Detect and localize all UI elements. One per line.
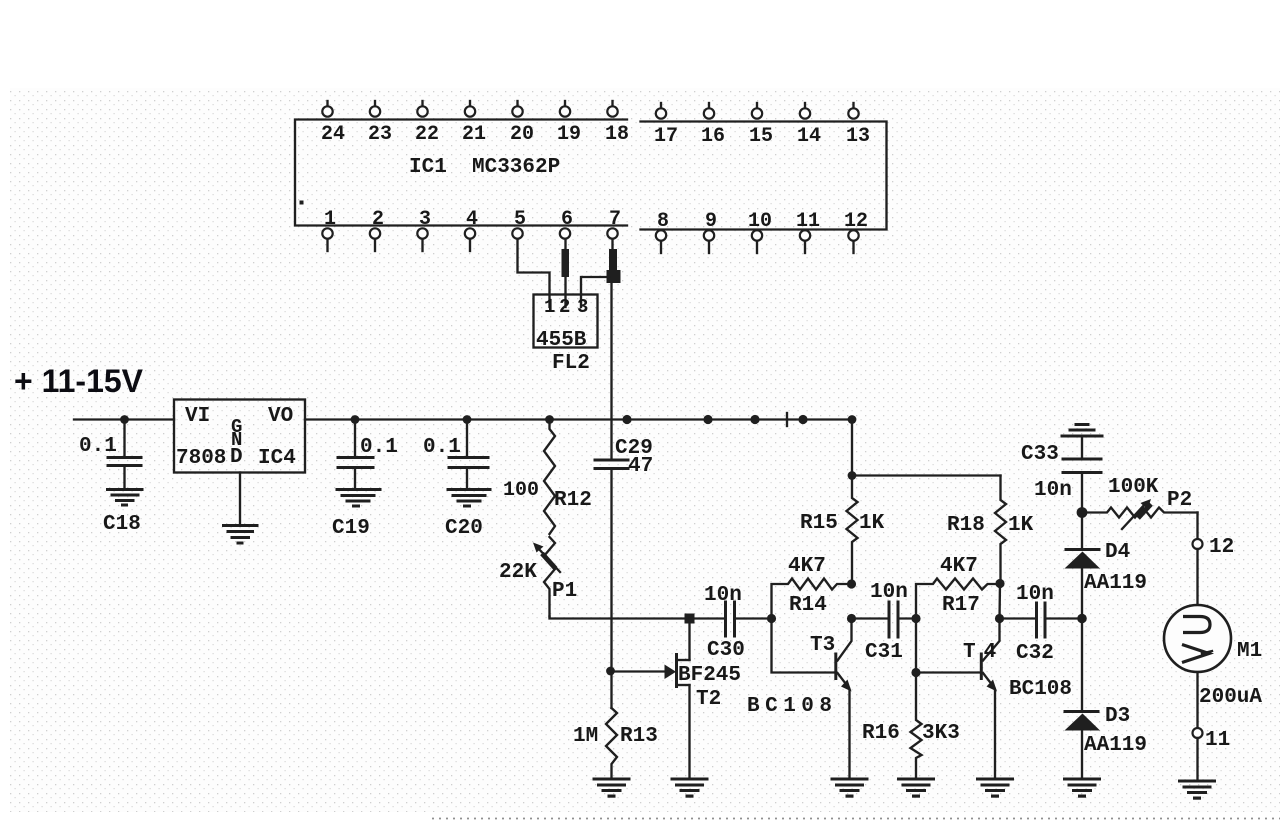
ground R16 xyxy=(899,779,934,798)
wire IC4 ground stem xyxy=(239,473,241,526)
svg-text:C33: C33 xyxy=(1021,443,1059,466)
pin 8 xyxy=(656,210,669,253)
svg-text:P1: P1 xyxy=(552,580,577,603)
svg-text:T4: T4 xyxy=(963,641,1004,664)
svg-text:R14: R14 xyxy=(789,594,827,617)
svg-text:T3: T3 xyxy=(810,634,835,657)
svg-text:C32: C32 xyxy=(1016,642,1054,665)
meter M1 VU xyxy=(1164,605,1262,672)
pin 21 xyxy=(462,101,486,146)
node junction R15 top / rail to R18 xyxy=(848,471,857,480)
node rail junction C19 xyxy=(351,415,360,424)
svg-text:BC108: BC108 xyxy=(1009,678,1072,701)
capacitor C33 10n xyxy=(1021,443,1101,513)
svg-text:D4: D4 xyxy=(1105,541,1130,564)
svg-text:4K7: 4K7 xyxy=(788,555,826,578)
svg-text:T2: T2 xyxy=(696,688,721,711)
svg-text:VI: VI xyxy=(185,405,210,428)
ground R13 xyxy=(594,779,629,798)
node junction T2 drain xyxy=(685,614,695,624)
IC1 MC3362P body (right half of scan seam) xyxy=(641,122,887,230)
svg-text:10n: 10n xyxy=(1016,583,1054,606)
ground C19 xyxy=(337,490,380,508)
svg-text:24: 24 xyxy=(321,123,345,146)
wire IC pin5 to FL2 pin1 xyxy=(518,239,550,307)
node rail corner junction R15 xyxy=(848,415,857,424)
svg-text:C19: C19 xyxy=(332,517,370,540)
ground M1 xyxy=(1180,781,1215,800)
capacitor C20 xyxy=(423,420,488,490)
svg-text:0.1: 0.1 xyxy=(360,436,398,459)
resistor R13 1M xyxy=(573,708,658,779)
svg-text:10n: 10n xyxy=(1034,479,1072,502)
pin 10 xyxy=(748,210,772,253)
svg-text:R17: R17 xyxy=(942,594,980,617)
svg-text:200uA: 200uA xyxy=(1199,686,1262,709)
pin 13 xyxy=(846,103,870,148)
pin 19 xyxy=(557,101,581,146)
svg-text:21: 21 xyxy=(462,123,486,146)
wire T3 base xyxy=(772,619,835,673)
capacitor C18 xyxy=(79,420,141,490)
capacitor C31 10n xyxy=(865,581,908,664)
ground D3 xyxy=(1065,779,1100,798)
svg-text:7808: 7808 xyxy=(176,447,226,470)
ground T4 emitter xyxy=(978,779,1013,798)
regulator IC4 7808 xyxy=(174,400,305,473)
filter FL2 455B box xyxy=(534,295,598,353)
svg-text:R13: R13 xyxy=(620,725,658,748)
svg-text:4K7: 4K7 xyxy=(940,555,978,578)
svg-text:22K: 22K xyxy=(499,561,537,584)
pin 15 xyxy=(749,103,773,148)
svg-text:10n: 10n xyxy=(704,584,742,607)
wire node to D3 xyxy=(1081,619,1083,711)
node junction R14 left / T3 base xyxy=(767,614,776,623)
svg-text:FL2: FL2 xyxy=(552,352,590,375)
svg-text:C20: C20 xyxy=(445,517,483,540)
wire C31 right xyxy=(900,617,917,619)
pin 12 xyxy=(844,210,868,253)
wire R18 node to C32 node xyxy=(998,584,1001,620)
capacitor C19 xyxy=(338,420,398,490)
wire C32 right xyxy=(1047,617,1083,619)
svg-text:D: D xyxy=(230,446,243,469)
svg-text:100: 100 xyxy=(503,479,539,502)
svg-text:BC108: BC108 xyxy=(747,695,838,718)
svg-text:19: 19 xyxy=(557,123,581,146)
potentiometer P2 100K xyxy=(1082,476,1198,529)
pin 23 xyxy=(368,101,392,146)
wire C30 to R14 node xyxy=(736,617,772,619)
svg-text:10: 10 xyxy=(748,210,772,233)
wire terminal 12 to meter xyxy=(1196,549,1198,605)
pin 1 xyxy=(322,208,336,251)
wire IC pin7 thick bar and junction blob xyxy=(607,239,621,283)
wire pin7 junction to FL2 pin3 xyxy=(581,277,609,307)
diode D3 AA119 xyxy=(1065,705,1148,779)
node junction R18 bottom / R17 right xyxy=(995,579,1004,588)
svg-text:14: 14 xyxy=(797,125,821,148)
svg-text:0.1: 0.1 xyxy=(79,435,117,458)
pin 5 xyxy=(512,208,526,239)
svg-text:10n: 10n xyxy=(870,581,908,604)
ground inverted above C33 xyxy=(1062,425,1102,459)
node gate junction xyxy=(606,667,615,676)
svg-text:M1: M1 xyxy=(1237,640,1262,663)
svg-text:R18: R18 xyxy=(947,514,985,537)
node rail junction C20 xyxy=(463,415,472,424)
pin 16 xyxy=(701,103,725,148)
svg-text:18: 18 xyxy=(605,123,629,146)
pin 11 xyxy=(796,210,820,253)
pin 20 xyxy=(510,101,534,146)
resistor R12 100 xyxy=(503,420,592,535)
ground T2 source xyxy=(672,779,707,798)
pin 22 xyxy=(415,101,439,146)
pin 7 xyxy=(607,208,621,239)
pin 9 xyxy=(704,210,717,253)
svg-text:+ 11-15V: + 11-15V xyxy=(14,363,144,399)
svg-text:C31: C31 xyxy=(865,641,903,664)
wire pin7 column down through rail xyxy=(610,283,612,459)
svg-text:11: 11 xyxy=(1205,729,1230,752)
node rail junction b xyxy=(750,415,759,424)
svg-text:VO: VO xyxy=(268,405,293,428)
IC1 MC3362P body (left half of scan seam) xyxy=(295,120,627,226)
node rail junction a xyxy=(703,415,712,424)
svg-text:12: 12 xyxy=(844,210,868,233)
node junction R14 right / R15 bottom xyxy=(847,579,856,588)
pin 17 xyxy=(654,103,678,148)
svg-text:IC4: IC4 xyxy=(258,447,296,470)
svg-text:3K3: 3K3 xyxy=(922,722,960,745)
node junction T4 collector / C32 xyxy=(995,614,1004,623)
pin 18 xyxy=(605,101,629,146)
node rail junction c xyxy=(798,415,807,424)
wire node to D4 xyxy=(1081,513,1083,549)
resistor R15 1K xyxy=(800,420,885,585)
ground C18 xyxy=(108,490,143,507)
wire C29 down to gate node xyxy=(610,469,612,708)
wire rail small tick xyxy=(786,413,788,426)
node junction C33 / P2 / D4 xyxy=(1077,507,1088,518)
resistor R18 1K xyxy=(947,476,1034,584)
IC1 label xyxy=(409,156,560,179)
resistor R16 3K3 xyxy=(862,673,960,780)
svg-text:2: 2 xyxy=(559,296,570,318)
terminal 11 xyxy=(1193,728,1231,752)
wire terminal 11 to ground xyxy=(1196,738,1198,781)
ground IC4 xyxy=(224,526,258,545)
wire C32 left xyxy=(1000,617,1036,619)
svg-text:16: 16 xyxy=(701,125,725,148)
svg-text:R15: R15 xyxy=(800,512,838,535)
svg-text:22: 22 xyxy=(415,123,439,146)
ground T3 emitter xyxy=(832,779,867,798)
transistor T3 BC108 xyxy=(747,619,852,780)
pin 4 xyxy=(465,208,478,251)
svg-text:100K: 100K xyxy=(1108,476,1159,499)
svg-text:BF245: BF245 xyxy=(678,664,741,687)
wire R15 node to R18 top xyxy=(852,474,1001,476)
svg-text:455B: 455B xyxy=(536,329,587,352)
svg-text:1K: 1K xyxy=(859,512,885,535)
svg-text:11: 11 xyxy=(796,210,820,233)
capacitor C32 10n xyxy=(1016,583,1054,665)
wire supply rail left segment xyxy=(74,418,174,420)
svg-text:AA119: AA119 xyxy=(1084,572,1147,595)
pin 3 xyxy=(417,208,431,251)
potentiometer P1 22K xyxy=(499,537,577,617)
resistor R17 4K7 xyxy=(916,555,1000,619)
svg-text:0.1: 0.1 xyxy=(423,436,461,459)
svg-text:IC1: IC1 xyxy=(409,156,447,179)
resistor R14 4K7 xyxy=(772,555,852,619)
transistor T2 BF245 xyxy=(665,619,742,780)
transistor T4 BC108 xyxy=(963,619,1072,780)
node rail junction C18 xyxy=(120,415,129,424)
svg-text:1: 1 xyxy=(544,296,555,318)
wire faint dotted scan line bottom xyxy=(432,818,1280,820)
svg-text:12: 12 xyxy=(1209,536,1234,559)
diode D4 AA119 xyxy=(1065,541,1148,619)
pin 24 xyxy=(321,101,345,146)
svg-text:MC3362P: MC3362P xyxy=(472,156,560,179)
wire T4 base xyxy=(916,619,979,673)
node rail junction at C29 column xyxy=(622,415,631,424)
svg-text:47: 47 xyxy=(628,455,653,478)
node junction C32 / diodes xyxy=(1077,614,1087,624)
node junction R17 left / T4 base xyxy=(911,614,920,623)
svg-text:1K: 1K xyxy=(1008,514,1034,537)
svg-text:D3: D3 xyxy=(1105,705,1130,728)
svg-text:R12: R12 xyxy=(554,489,592,512)
svg-text:20: 20 xyxy=(510,123,534,146)
svg-text:R16: R16 xyxy=(862,722,900,745)
wire IC pin6 to FL2 pin2 (thick bar) xyxy=(562,239,570,307)
svg-text:23: 23 xyxy=(368,123,392,146)
pin 2 xyxy=(370,208,384,251)
terminal 12 xyxy=(1193,536,1235,559)
capacitor C29 47 xyxy=(595,437,653,478)
pin 14 xyxy=(797,103,821,148)
capacitor C30 10n xyxy=(704,584,745,662)
svg-text:15: 15 xyxy=(749,125,773,148)
svg-text:AA119: AA119 xyxy=(1084,734,1147,757)
svg-text:P2: P2 xyxy=(1167,489,1192,512)
ground C20 xyxy=(448,490,490,508)
wire supply rail middle segment xyxy=(305,418,852,420)
svg-text:C30: C30 xyxy=(707,639,745,662)
svg-text:C18: C18 xyxy=(103,513,141,536)
pin 6 xyxy=(560,208,573,239)
wire P2 to terminal 12 xyxy=(1196,513,1198,540)
svg-text:1M: 1M xyxy=(573,725,598,748)
node junction R16 top xyxy=(911,668,920,677)
wire gate to T2 xyxy=(611,670,666,672)
node junction T3 collector / C31 xyxy=(847,614,856,623)
node rail junction R12 xyxy=(545,415,554,424)
svg-text:17: 17 xyxy=(654,125,678,148)
wire meter to terminal 11 xyxy=(1196,672,1198,728)
wire C31 left xyxy=(852,617,888,619)
svg-text:13: 13 xyxy=(846,125,870,148)
wire signal line P1 to C30 xyxy=(550,617,725,619)
svg-text:3: 3 xyxy=(577,296,588,318)
